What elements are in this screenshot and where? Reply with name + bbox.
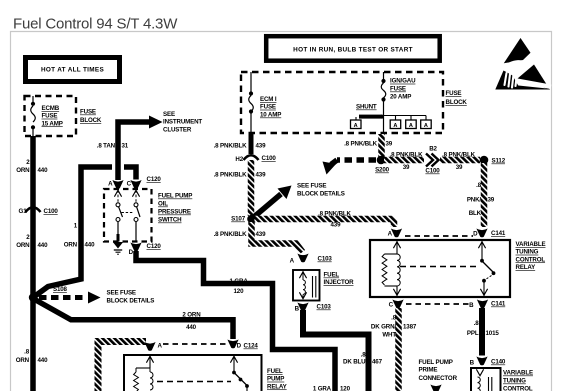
label .8 PPL 1015 [467, 320, 499, 337]
svg-text:ECM I: ECM I [260, 96, 277, 103]
svg-text:SWITCH: SWITCH [158, 217, 182, 224]
svg-text:TUNING: TUNING [516, 249, 539, 256]
svg-text:ORN: ORN [64, 242, 78, 249]
svg-text:467: 467 [372, 359, 383, 366]
fuse IGN/GAU 20 AMP [381, 72, 416, 133]
label 2 ORN 440 (lower) [16, 234, 48, 249]
svg-text:PRESSURE: PRESSURE [158, 209, 191, 216]
svg-text:A: A [158, 343, 163, 350]
svg-text:1 GRA: 1 GRA [230, 278, 249, 285]
svg-text:VARIABLE: VARIABLE [503, 370, 533, 377]
label FUEL INJECTOR [324, 272, 355, 287]
banner HOT AT ALL TIMES [26, 58, 120, 82]
wire .8 PNK/BLK 39 (C100 to S112, hatched) [440, 157, 480, 164]
svg-text:Fuel Control 94 S/T 4.3W: Fuel Control 94 S/T 4.3W [13, 16, 178, 33]
svg-text:20 AMP: 20 AMP [390, 93, 411, 100]
connector C141 pin B (VTC relay bottom) [469, 300, 506, 310]
fuel injector internals [299, 271, 315, 299]
label FUEL PUMP PRIME CONNECTOR [419, 359, 458, 382]
svg-text:.8 PNK/BLK: .8 PNK/BLK [214, 172, 248, 179]
label SEE FUSE BLOCK DETAILS (middle) [297, 183, 345, 198]
svg-text:15 AMP: 15 AMP [42, 120, 63, 127]
svg-text:C103: C103 [317, 304, 332, 311]
connector C120 pin C [127, 176, 162, 189]
wire .8 PNK/BLK 39 (S112 down to VTC relay pin D, hatched) [481, 163, 488, 227]
label .8 DK GRN/WHT 1387 [371, 315, 417, 339]
svg-text:.8: .8 [24, 349, 30, 356]
wire 1 GRA 120 (pin D to bottom) [136, 251, 335, 391]
svg-text:D: D [473, 231, 478, 238]
terminal A2 [390, 120, 401, 129]
svg-text:39: 39 [386, 141, 393, 148]
wire .8 PNK/BLK 439 (S107 down to injector pin A, hatched) [252, 222, 303, 252]
svg-text:D: D [237, 343, 242, 350]
wire to fuel pump relay pin A (hatched) [98, 342, 146, 391]
wire 1 ORN continues after crossover to pin C [124, 167, 136, 180]
svg-text:39: 39 [403, 164, 410, 171]
splice S112 [480, 156, 506, 165]
svg-text:.8: .8 [361, 351, 367, 358]
label FUSE BLOCK (right of top fuse block) [446, 90, 468, 106]
arrow see fuse block details (from S108) [39, 292, 101, 304]
arrow see fuse block details (from S107) [252, 186, 292, 220]
svg-text:B2: B2 [429, 146, 437, 153]
svg-text:.8 PNK/BLK: .8 PNK/BLK [214, 231, 248, 238]
svg-text:31: 31 [122, 143, 129, 150]
label .8 DK BLU 467 [343, 351, 383, 365]
svg-text:C141: C141 [491, 301, 506, 308]
label FUEL PUMP RELAY [267, 368, 288, 390]
svg-text:RELAY: RELAY [267, 383, 288, 390]
wire .8 PNK/BLK 439 (ECM I fuse down) [249, 133, 254, 154]
terminal A1 (below shunt) [351, 117, 362, 129]
VTC relay linkage (dashed) [400, 266, 478, 268]
label .8 PNK/BLK 439 (below S107) [214, 231, 266, 238]
connector C103 pin B (fuel injector) [295, 303, 332, 313]
label .8 PNK/BLK 39 (left span) [390, 151, 424, 171]
banner HOT IN RUN, BULB TEST OR START [266, 36, 440, 61]
svg-text:CONNECTOR: CONNECTOR [419, 375, 458, 382]
svg-text:.8 TAN: .8 TAN [97, 143, 116, 150]
svg-text:SHUNT: SHUNT [356, 104, 377, 111]
svg-text:.8 PNK/BLK: .8 PNK/BLK [442, 151, 476, 158]
svg-text:439: 439 [256, 231, 267, 238]
connector pin A (VTC relay) [388, 229, 402, 238]
svg-text:FUSE: FUSE [80, 109, 96, 116]
svg-text:SEE FUSE: SEE FUSE [297, 183, 326, 190]
svg-text:.8 PNK/BLK: .8 PNK/BLK [214, 143, 248, 150]
label 2 ORN 440 (horizontal run) [182, 312, 201, 332]
label .8 PNK/BLK 439 (S107 right) [318, 211, 352, 229]
svg-text:.8: .8 [391, 315, 397, 322]
svg-text:A: A [424, 123, 428, 129]
svg-text:120: 120 [234, 288, 245, 295]
svg-text:PPL: PPL [467, 330, 479, 337]
svg-text:1015: 1015 [486, 330, 500, 337]
connector C141 pin C (VTC relay bottom) [389, 300, 404, 309]
ESD warning symbol [495, 38, 551, 90]
label 1 ORN 440 [64, 223, 95, 249]
wire .8 PNK/BLK 39 (IGN/GAU fuse to S200, hatched) [378, 134, 385, 157]
VTC relay switch branch [478, 241, 495, 296]
svg-text:S112: S112 [492, 158, 506, 165]
connector G1 C100 [19, 207, 59, 215]
svg-text:439: 439 [256, 143, 267, 150]
svg-text:BLOCK DETAILS: BLOCK DETAILS [107, 298, 155, 305]
svg-text:440: 440 [85, 242, 96, 249]
fuel pump relay box [124, 355, 262, 391]
svg-text:D: D [129, 249, 134, 256]
fuel injector box [293, 270, 320, 301]
switch linkage (dashed) [122, 212, 134, 214]
label .8 PNK/BLK 39 [344, 141, 393, 148]
svg-text:WHT: WHT [382, 332, 396, 339]
svg-text:HOT AT ALL TIMES: HOT AT ALL TIMES [41, 67, 104, 74]
fuse ECMB 15 AMP [31, 96, 63, 136]
svg-text:C120: C120 [147, 243, 162, 250]
svg-text:FUSE: FUSE [390, 86, 406, 93]
svg-text:FUEL: FUEL [324, 272, 340, 279]
svg-text:.8: .8 [474, 320, 480, 327]
svg-text:.8 PNK/BLK: .8 PNK/BLK [318, 211, 352, 218]
wire DK GRN/WHT 1387 (pin C down, hatched) [395, 308, 402, 391]
shunt bar [356, 104, 384, 119]
label SEE FUSE BLOCK DETAILS (left) [107, 290, 155, 305]
svg-text:439: 439 [331, 222, 342, 229]
splice S107 [231, 215, 256, 224]
svg-text:B: B [470, 360, 475, 367]
svg-text:.8 PNK/BLK: .8 PNK/BLK [344, 141, 378, 148]
connector H2 C100 [235, 155, 276, 163]
connector C141 pin D (VTC relay) [473, 229, 506, 238]
svg-text:A: A [290, 258, 295, 265]
fuse block (top, dashed) [241, 72, 443, 133]
svg-text:39: 39 [456, 164, 463, 171]
svg-text:C100: C100 [44, 208, 59, 215]
fuel pump oil pressure switch (dashed box) [104, 189, 152, 242]
variable tuning control relay box [370, 240, 510, 297]
connector C120 pin A [108, 180, 123, 189]
label VARIABLE TUNING CONTROL RELAY [516, 241, 546, 271]
svg-text:C103: C103 [318, 256, 333, 263]
wire 2 ORN 440 (S108 to fuel pump relay pin D) [33, 299, 233, 340]
svg-text:440: 440 [38, 242, 49, 249]
wire 2 ORN 440 (ECMB fuse down left side) [30, 136, 36, 391]
svg-text:G1: G1 [19, 208, 28, 215]
label .8 TAN 31 [97, 143, 129, 150]
label .8 ORN 440 [16, 349, 48, 365]
svg-text:C140: C140 [491, 359, 506, 366]
terminal bus wire [384, 116, 427, 121]
svg-text:FUSE: FUSE [260, 104, 276, 111]
svg-text:ORN: ORN [16, 242, 30, 249]
svg-text:S107: S107 [231, 216, 246, 223]
VTC relay coil branch [382, 241, 401, 296]
svg-text:439: 439 [256, 172, 267, 179]
svg-text:.8 PNK/BLK: .8 PNK/BLK [390, 151, 424, 158]
svg-text:PNK/: PNK/ [467, 197, 482, 204]
svg-text:2 ORN: 2 ORN [182, 312, 201, 319]
fuel pump relay switch branch [230, 356, 249, 391]
svg-text:C120: C120 [147, 176, 162, 183]
svg-text:PUMP: PUMP [267, 376, 284, 383]
splice S200 [375, 156, 390, 174]
svg-text:C141: C141 [491, 230, 506, 237]
connector C140 pin B [470, 357, 506, 367]
label .8 PNK/BLK 439 (lower) [214, 172, 266, 179]
fuel pump relay coil branch [134, 356, 154, 391]
svg-text:1 GRA: 1 GRA [313, 386, 332, 391]
svg-text:FUEL: FUEL [267, 368, 283, 375]
svg-text:A: A [354, 123, 358, 129]
fuel pump prime connector symbol [430, 385, 441, 391]
svg-text:10 AMP: 10 AMP [260, 112, 281, 119]
svg-text:440: 440 [38, 167, 49, 174]
label FUEL PUMP OIL PRESSURE SWITCH [158, 193, 192, 224]
svg-text:S200: S200 [375, 167, 390, 174]
label 1 GRA 120 [230, 278, 249, 295]
svg-text:ORN: ORN [16, 357, 30, 364]
svg-text:HOT IN RUN, BULB TEST OR START: HOT IN RUN, BULB TEST OR START [293, 47, 413, 54]
svg-text:PRIME: PRIME [419, 367, 438, 374]
label .8 PNK/BLK 39 (vertical run) [467, 182, 495, 217]
wire 1 ORN 440 (S108 up to switch) [33, 167, 112, 298]
svg-text:SEE: SEE [163, 111, 175, 118]
ground (oil pressure switch) [113, 242, 123, 254]
terminal A3 [406, 120, 417, 129]
terminal A4 [421, 120, 432, 129]
wire .8 DK BLU 467 (injector B down) [303, 310, 369, 391]
svg-text:CONTROL: CONTROL [516, 256, 546, 263]
arrow see fuse block details (from S200) [323, 160, 377, 175]
svg-text:CONTROL: CONTROL [503, 386, 533, 391]
connector line C124 (dashed) [163, 343, 227, 345]
svg-text:1387: 1387 [403, 324, 417, 331]
svg-text:A: A [409, 123, 413, 129]
wire .8 PNK/BLK 439 (S107 to VTC relay pin A, hatched) [255, 219, 395, 227]
svg-text:CLUSTER: CLUSTER [163, 126, 192, 133]
svg-text:TUNING: TUNING [503, 378, 526, 385]
connector B2 C100 [425, 146, 440, 175]
svg-text:B: B [295, 306, 300, 313]
wire .8 PNK/BLK 439 (H2 to S107, hatched) [248, 160, 255, 216]
switch 2 (to pin D) [132, 190, 140, 242]
svg-text:C100: C100 [262, 155, 277, 162]
svg-text:DK BLU: DK BLU [343, 359, 366, 366]
connector C103 pin A (fuel injector) [290, 254, 333, 265]
svg-text:39: 39 [488, 197, 495, 204]
connector C124 pin D (fuel pump relay) [227, 340, 258, 350]
connector C120 pin D [129, 243, 162, 257]
label .8 PNK/BLK 39 (right span) [442, 151, 476, 171]
connector pin A (fuel pump relay) [144, 342, 162, 351]
wire .8 TAN 31 with arrow SEE INSTRUMENT CLUSTER [118, 116, 163, 181]
svg-text:FUEL PUMP: FUEL PUMP [158, 193, 192, 200]
svg-text:DK GRN/: DK GRN/ [371, 324, 397, 331]
svg-text:C: C [127, 181, 132, 188]
svg-text:A: A [108, 181, 113, 188]
svg-text:ECMB: ECMB [42, 105, 60, 112]
label VARIABLE TUNING CONTROL (bottom) [503, 370, 533, 391]
svg-text:FUSE: FUSE [42, 113, 58, 120]
svg-text:120: 120 [340, 386, 351, 391]
svg-text:B: B [469, 302, 474, 309]
svg-text:BLK: BLK [469, 210, 482, 217]
svg-text:BLOCK: BLOCK [446, 99, 468, 106]
svg-text:BLOCK DETAILS: BLOCK DETAILS [297, 191, 345, 198]
fuse ECM I 10 AMP [249, 72, 281, 133]
svg-text:RELAY: RELAY [516, 264, 537, 271]
svg-text:C100: C100 [425, 168, 440, 175]
svg-text:440: 440 [186, 324, 197, 331]
label 2 ORN 440 (upper) [16, 159, 48, 174]
fuse block ECMB (dashed) [25, 96, 77, 136]
title: Fuel Control 94 S/T 4.3W [13, 16, 178, 33]
svg-text:A: A [388, 231, 393, 238]
wire .8 PNK/BLK 39 (S200 to C100, hatched) [384, 157, 424, 164]
svg-text:FUSE: FUSE [446, 90, 462, 97]
label FUSE BLOCK (right of ECMB) [80, 109, 102, 125]
VTC solenoid coil [476, 369, 491, 391]
svg-text:BLOCK: BLOCK [80, 117, 102, 124]
svg-text:C: C [389, 302, 394, 309]
svg-text:H2: H2 [235, 156, 243, 163]
connector line C141 (top, dashed) [405, 235, 473, 237]
svg-text:IGN/GAU: IGN/GAU [390, 78, 416, 85]
splice S108 [29, 286, 68, 302]
svg-text:SEE FUSE: SEE FUSE [107, 290, 136, 297]
wire .8 PPL 1015 (pin B down) [479, 308, 485, 356]
fuel pump relay linkage (dashed) [157, 381, 231, 383]
svg-text:VARIABLE: VARIABLE [516, 241, 546, 248]
svg-text:C124: C124 [244, 343, 259, 350]
svg-text:FUEL PUMP: FUEL PUMP [419, 359, 453, 366]
label 1 GRA 120 (bottom) [313, 386, 351, 391]
svg-text:.8: .8 [476, 182, 482, 189]
svg-text:A: A [393, 123, 397, 129]
svg-text:INSTRUMENT: INSTRUMENT [163, 119, 202, 126]
variable tuning control box (bottom right) [471, 368, 501, 391]
label .8 PNK/BLK 439 (upper) [214, 143, 266, 150]
label SEE INSTRUMENT CLUSTER [163, 111, 202, 133]
svg-text:440: 440 [38, 357, 49, 364]
switch 1 (to ground) [114, 190, 122, 242]
svg-text:ORN: ORN [16, 167, 30, 174]
connector line C141 (bottom, dashed) [406, 303, 472, 305]
svg-text:INJECTOR: INJECTOR [324, 279, 355, 286]
svg-text:OIL: OIL [158, 201, 168, 208]
